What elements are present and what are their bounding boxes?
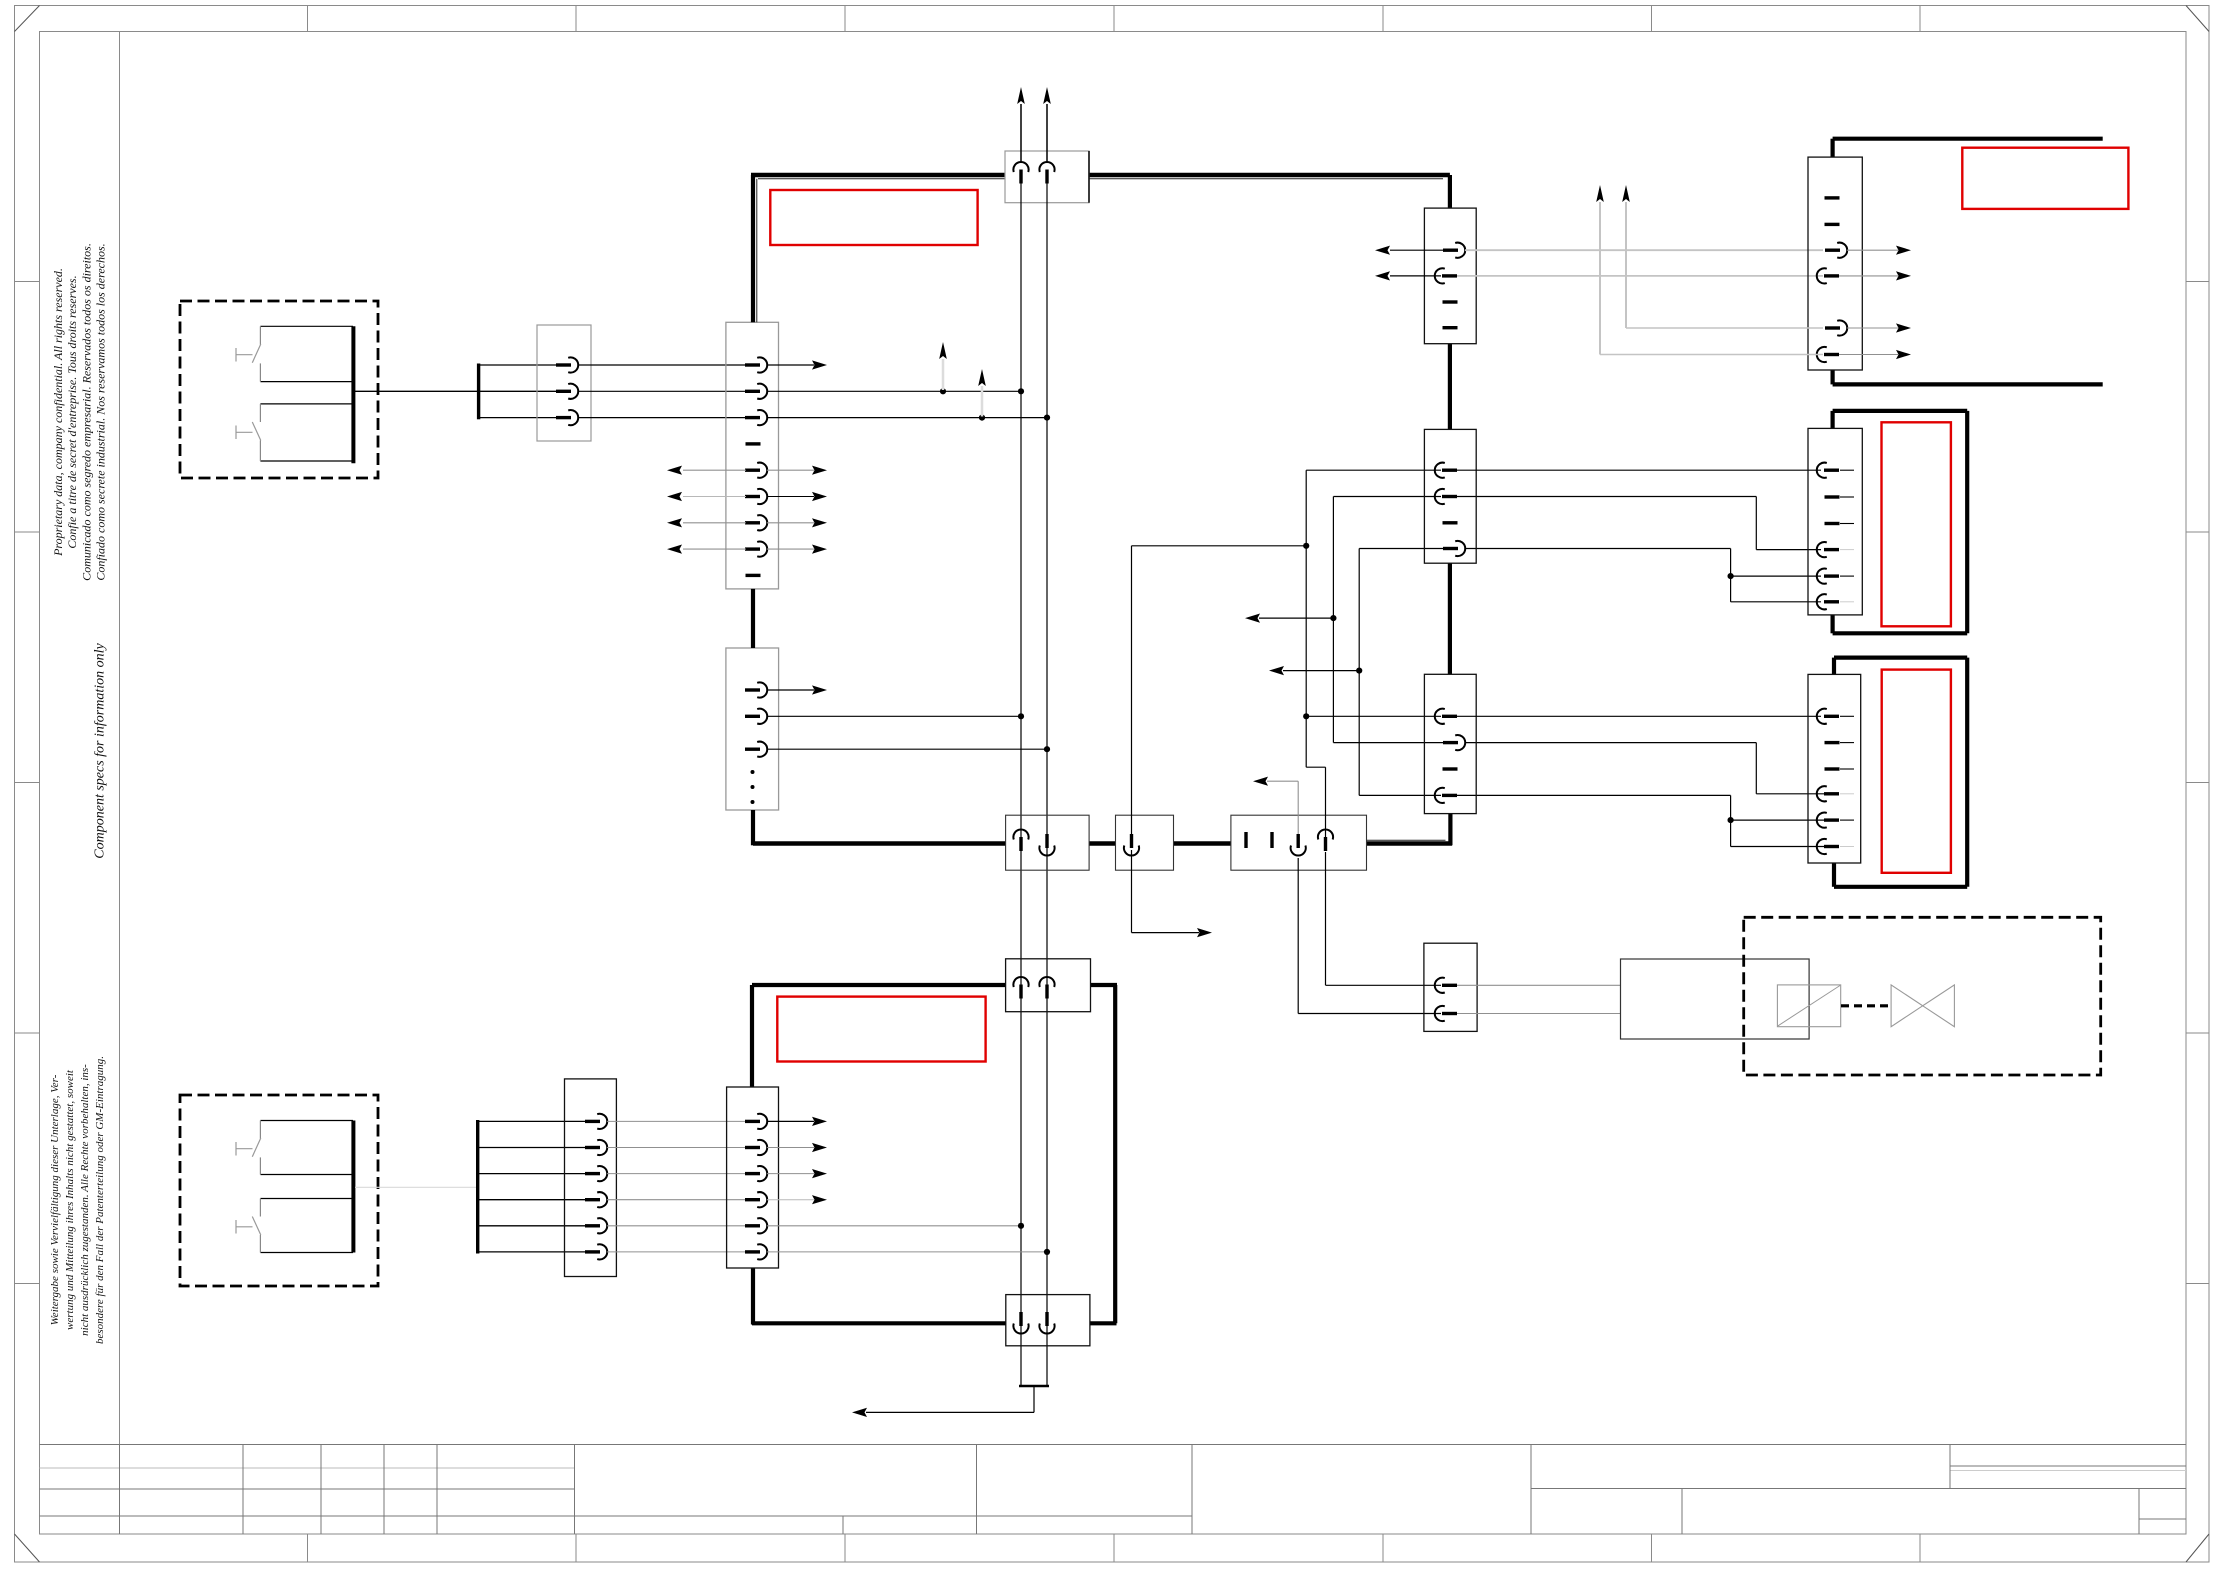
wire X18 pin 4 arrow right — [767, 1195, 827, 1204]
connector X18 pin 1 — [745, 1114, 767, 1129]
module U1 left edge middle — [751, 589, 755, 648]
connector X12 pin 5 — [1825, 320, 1847, 335]
junction dot V1a — [940, 388, 946, 394]
wire SP2 to X17 pin 5 — [479, 1225, 585, 1227]
connector X12 body — [1808, 157, 1862, 370]
wire net E4 to X10 pin 4 — [1359, 794, 1441, 796]
module U4 left edge lower — [751, 1268, 755, 1325]
connector X8 pin 2 — [1435, 268, 1457, 283]
wire X7 pin 3 arrow left — [1253, 777, 1298, 834]
wire net E2 left drop — [1333, 497, 1441, 743]
battery G1 terminal bar — [351, 326, 355, 463]
wire X6 feed vertical — [1131, 546, 1133, 834]
label frame U2 (red) — [1882, 422, 1951, 626]
connector X8 pin 3 — [1443, 300, 1458, 303]
connector X7 spare pin 2 — [1270, 832, 1273, 848]
junction dot V2a — [979, 415, 985, 421]
wire X11 pin 1 to pump M1 — [1457, 984, 1621, 986]
connector X12 pin 3 — [1825, 243, 1847, 258]
wire riser R1 to X12 pin 5 — [1622, 185, 1823, 328]
connector X17 pin 3 — [585, 1166, 607, 1181]
module U2 outline — [1833, 411, 1968, 633]
connector X4 body — [1005, 151, 1089, 203]
battery box G2 dashed enclosure — [180, 1095, 378, 1286]
connector X2 pin 5 — [745, 463, 767, 478]
wire X10 pin 4 to U3 pins 5 and 6 — [1456, 795, 1825, 846]
wire X2 pin 6 left arrow — [667, 492, 746, 501]
connector X5 pin 1 — [1013, 829, 1028, 851]
connector X13 pin 6 — [1817, 594, 1839, 609]
label frame U5 (red) — [1962, 148, 2128, 209]
wire X2 pin 1 output arrow — [767, 360, 827, 369]
connector X12 pin 6 — [1817, 347, 1839, 362]
module U1 bottom bus segment 4 — [1367, 840, 1453, 843]
wire X17 pin 4 to X18 pin 4 — [607, 1199, 746, 1201]
legal text block german — [49, 1056, 106, 1344]
wire X10 pin 1 to U3 pin 1 — [1457, 715, 1821, 717]
wire X8 pin 1 arrow left — [1375, 246, 1443, 255]
junction dot U3 feed — [1728, 817, 1734, 823]
wire X2 pin 8 left arrow — [667, 545, 746, 554]
connector X6 pin 1 — [1124, 834, 1139, 856]
wire net E1 to X10 pin 1 — [1306, 715, 1441, 717]
svg-text:Weitergabe sowie Vervielfält: Weitergabe sowie Vervielfältigung dieser… — [49, 1074, 61, 1325]
connector X10 body — [1424, 674, 1476, 813]
junction dot E4 — [1356, 668, 1362, 674]
wire SP1 to X1 pin 1 — [480, 364, 556, 366]
wire X3 pin 3 to node V2c — [767, 748, 1047, 750]
wire net N2 vertical — [1046, 184, 1048, 1387]
svg-text:Proprietary data, company con: Proprietary data, company confidential. … — [51, 268, 65, 557]
connector X2 pin 2 — [745, 384, 767, 399]
wire X2 pin 5 left arrow — [667, 466, 746, 475]
connector X1 pin 1 — [556, 357, 578, 372]
connector X11 pin 2 — [1435, 1006, 1457, 1021]
connector X12 pin 4 — [1817, 268, 1839, 283]
wire battery G1 output — [355, 390, 478, 392]
wire X18 pin 3 arrow right — [767, 1169, 827, 1178]
connector X17 pin 5 — [585, 1218, 607, 1233]
connector X14 pin 4 — [1817, 786, 1839, 801]
module U4 right edge — [1113, 985, 1117, 1323]
wire SP2 to X17 pin 3 — [479, 1173, 585, 1175]
wire X9 pin 1 to U2 pin 1 — [1457, 469, 1821, 471]
wire X18 pin 2 arrow right — [767, 1143, 827, 1152]
corner diagonal bottom-left — [15, 1534, 40, 1562]
wire X11 pin 2 to pump M1 — [1457, 1013, 1621, 1015]
connector X14 pin 1 — [1817, 709, 1839, 724]
switch S4 of battery G2 — [236, 1217, 261, 1236]
mechanical link L1 to valve — [1841, 1004, 1891, 1007]
wire X17 pin 3 to X18 pin 3 — [607, 1173, 746, 1175]
wire X1 pin 3 to X2 pin 3 — [578, 417, 746, 419]
wire X2 pin 6 right arrow — [767, 492, 827, 501]
wire X8 pin 2 arrow left — [1375, 271, 1441, 280]
connector X13 pin 2 — [1825, 495, 1840, 498]
connector X15 pin 1 — [1013, 977, 1028, 999]
connector X2 pin 8 — [745, 542, 767, 557]
battery box G1 dashed enclosure — [180, 301, 378, 478]
module U4 left edge upper — [750, 985, 754, 1087]
wire X12 pin 5 arrow right — [1847, 323, 1911, 332]
module U1 right edge segment 2 — [1448, 344, 1452, 430]
connector X13 pin 4 — [1817, 542, 1839, 557]
wire net E2 branch arrow left — [1245, 614, 1333, 623]
battery G1 cell 2 — [260, 404, 353, 461]
connector X13 pin 1 — [1817, 463, 1839, 478]
module U3 outline — [1834, 658, 1967, 887]
switch S2 of battery G1 — [236, 422, 261, 441]
junction dot E1 — [1303, 713, 1309, 719]
connector X1 body — [537, 325, 591, 441]
connector X1 pin 2 — [556, 384, 578, 399]
wire X2 pin 8 right arrow — [767, 545, 827, 554]
module U1 right edge segment 4 — [1448, 814, 1452, 846]
title block grid — [40, 1445, 2187, 1535]
wire X18 pin 6 to node N2 — [767, 1251, 1047, 1253]
connector X16 pin 1 — [1013, 1312, 1028, 1334]
module U4 bottom edge — [752, 1321, 1117, 1325]
wire X12 pin 6 arrow right — [1839, 350, 1911, 359]
legal text block english — [51, 243, 108, 581]
connector X14 pin 5 — [1817, 812, 1839, 827]
wire SP1 to X1 pin 3 — [480, 417, 556, 419]
svg-text:Confie a titre de secret d'e: Confie a titre de secret d'entreprise. T… — [65, 275, 79, 548]
connector X8 pin 1 — [1443, 243, 1465, 258]
left margin text column divider — [119, 32, 121, 1445]
junction dot N1d — [1018, 1223, 1024, 1229]
connector X3 pin 2 — [745, 709, 767, 724]
connector X10 pin 2 — [1443, 735, 1465, 750]
wire X1 pin 1 to X2 pin 1 — [578, 364, 746, 366]
connector X9 pin 4 — [1443, 541, 1465, 556]
wire terminator to arrow left — [852, 1386, 1034, 1417]
connector X16 pin 2 — [1039, 1312, 1054, 1334]
connector X14 pin 2 — [1825, 741, 1840, 744]
connector X13 body — [1808, 428, 1862, 615]
zone tick marks bottom edge — [308, 1534, 1921, 1562]
module U4 top edge — [752, 983, 1117, 987]
wire SP2 to X17 pin 6 — [479, 1251, 585, 1253]
wire SP2 to X17 pin 1 — [479, 1120, 585, 1122]
zone tick marks top edge — [308, 6, 1921, 32]
module U1 right edge segment 1 — [1448, 175, 1452, 208]
zone tick marks right edge — [2186, 282, 2209, 1284]
module U5 bottom edge — [1833, 370, 2103, 384]
module U1 top bus — [751, 175, 1450, 179]
connector X18 pin 2 — [745, 1140, 767, 1155]
junction dot V2b — [1044, 415, 1050, 421]
connector X9 pin 2 — [1435, 489, 1457, 504]
connector X12 pin 1 — [1825, 196, 1840, 199]
wire net E4 left drop — [1359, 549, 1443, 796]
wire X6 to arrow right — [1132, 850, 1213, 937]
connector X16 body — [1006, 1295, 1090, 1346]
connector X10 pin 4 — [1435, 788, 1457, 803]
connector X3 pin 1 — [745, 682, 767, 697]
pump box M1 — [1621, 959, 1810, 1039]
connector X5 body — [1006, 815, 1090, 870]
wire net E4 right to U2 pins 5 and 6 — [1465, 549, 1821, 602]
connector X4 pin 2 — [1039, 162, 1054, 184]
label frame U4 (red) — [777, 997, 985, 1062]
battery G2 cell 2 — [260, 1199, 353, 1253]
wire X4 pin 2 arrow up — [1043, 87, 1051, 163]
junction dot U2 feed — [1728, 573, 1734, 579]
label frame U1 (red) — [770, 190, 977, 245]
connector X3 ellipsis dots — [751, 770, 755, 804]
connector X7 body — [1231, 815, 1367, 870]
wire X4 pin 1 arrow up — [1017, 87, 1025, 163]
module U1 bottom bus segment 2 — [1089, 841, 1115, 846]
valve V1 — [1891, 985, 1954, 1027]
module U1 bottom bus segment 3 — [1174, 841, 1231, 846]
junction dot W1 — [1303, 543, 1309, 549]
svg-text:Component specs for informatio: Component specs for information only — [93, 642, 108, 858]
connector X14 pin 6 — [1817, 839, 1839, 854]
wire X3 pin 1 output arrow — [767, 685, 827, 694]
battery G2 cell 1 — [260, 1121, 353, 1175]
module U1 bottom bus segment 1 — [753, 841, 1006, 846]
corner diagonal top-left — [15, 6, 40, 32]
connector X15 body — [1006, 959, 1091, 1012]
connector X7 spare pin 1 — [1244, 832, 1247, 848]
svg-text:Comunicado como segredo empres: Comunicado como segredo empresarial. Res… — [79, 243, 93, 581]
corner diagonal bottom-right — [2186, 1534, 2209, 1562]
connector X17 pin 2 — [585, 1140, 607, 1155]
connector X18 body — [727, 1087, 779, 1268]
connector X17 body — [565, 1079, 617, 1277]
splice bracket SP1 — [477, 364, 480, 420]
wire net E2 to X10 pin 2 — [1333, 742, 1443, 744]
connector X12 pin 2 — [1825, 223, 1840, 226]
wire net E1 upper — [1306, 470, 1441, 767]
wire SP2 to X17 pin 4 — [479, 1199, 585, 1201]
connector X6 body — [1116, 815, 1174, 870]
wire riser R2 to X12 pin 6 — [1596, 185, 1823, 355]
wire X18 pin 1 arrow right — [767, 1117, 827, 1126]
module U5 top edge — [1833, 139, 2103, 157]
battery G2 terminal bar — [351, 1121, 355, 1253]
connector X13 pin 3 — [1825, 522, 1840, 525]
connector X8 pin 4 — [1443, 326, 1458, 329]
splice bracket SP2 — [476, 1120, 479, 1254]
connector X15 pin 2 — [1039, 977, 1054, 999]
connector X2 body — [726, 322, 779, 589]
connector X4 pin 1 — [1013, 162, 1028, 184]
wire net E2 right to U2 pin 4 — [1457, 497, 1821, 550]
wire X12 pin 3 arrow right — [1847, 246, 1911, 255]
connector X14 pin stubs — [1840, 716, 1854, 846]
connector X17 pin 4 — [585, 1192, 607, 1207]
connector X10 pin 1 — [1435, 709, 1457, 724]
connector X9 pin 1 — [1435, 463, 1457, 478]
connector X3 body — [726, 648, 779, 810]
wire X10 pin 2 to U3 pin 4 — [1465, 743, 1825, 794]
wire X2 pin 5 right arrow — [767, 466, 827, 475]
connector X11 body — [1424, 943, 1477, 1031]
switch S3 of battery G2 — [236, 1138, 261, 1157]
wire X1 pin 2 to X2 pin 2 — [578, 390, 746, 392]
signal arrow up at node V2a — [978, 369, 986, 417]
wire X18 pin 5 to node N1 — [767, 1225, 1021, 1227]
wire X17 pin 1 to X18 pin 1 — [607, 1120, 746, 1122]
connector X5 pin 2 — [1039, 834, 1054, 856]
wire X8 pin 1 to U5 pin 3 — [1465, 249, 1823, 251]
junction dot N2d — [1044, 1249, 1050, 1255]
wire X8 pin 2 to U5 pin 4 — [1457, 275, 1823, 277]
connector X2 pin 7 — [745, 515, 767, 530]
wire X17 pin 5 to X18 pin 5 — [607, 1225, 746, 1227]
wire X7 pin 4 to X11 pin 1 — [1326, 852, 1442, 985]
connector X7 pin 3 — [1291, 834, 1306, 856]
wire net N1 vertical — [1020, 184, 1022, 1387]
junction dot V1b — [1018, 388, 1024, 394]
wire net E4 branch arrow left — [1269, 666, 1359, 675]
wire X2 pin 7 left arrow — [667, 518, 746, 527]
wire X12 pin 4 arrow right — [1839, 271, 1911, 280]
svg-text:besondere für den Fall der Pat: besondere für den Fall der Patenterteilu… — [94, 1056, 106, 1344]
wire net E1 jog to X7 pin 4 — [1306, 767, 1325, 838]
connector X2 pin 4 — [746, 442, 761, 445]
connector X11 pin 1 — [1435, 978, 1457, 993]
connector X17 pin 6 — [585, 1244, 607, 1259]
connector X18 pin 4 — [745, 1192, 767, 1207]
connector X8 body — [1424, 208, 1476, 344]
junction dot V2c — [1044, 746, 1050, 752]
wire X7 pin 3 to X11 pin 2 — [1298, 858, 1441, 1014]
connector X14 pin 3 — [1825, 767, 1840, 770]
signal arrow up at node V1a — [939, 342, 947, 390]
component specs note text — [93, 642, 108, 858]
connector X18 pin 3 — [745, 1166, 767, 1181]
wire battery G2 output — [355, 1186, 477, 1188]
wire X2 pin 3 to node V2 — [767, 417, 1047, 419]
junction dot E2 — [1330, 615, 1336, 621]
module U1 right edge segment 3 — [1448, 563, 1452, 674]
connector X1 pin 3 — [556, 410, 578, 425]
switch S1 of battery G1 — [236, 344, 261, 363]
corner diagonal top-right — [2186, 6, 2209, 32]
wire X2 pin 7 right arrow — [767, 518, 827, 527]
svg-text:wertung und Mitteilung ihres I: wertung und Mitteilung ihres Inhalts nic… — [64, 1069, 76, 1330]
module U1 left edge lower — [751, 810, 755, 845]
net terminator bar — [1019, 1385, 1049, 1388]
connector X18 pin 5 — [745, 1218, 767, 1233]
connector X7 pin 4 — [1318, 829, 1333, 851]
connector X2 pin 3 — [745, 410, 767, 425]
wire X2 pin 2 to node V1 — [767, 390, 1021, 392]
battery G1 cell 1 — [260, 326, 353, 381]
module U1 left edge upper — [753, 175, 757, 322]
connector X17 pin 1 — [585, 1114, 607, 1129]
connector X2 pin 6 — [745, 489, 767, 504]
wire SP2 to X17 pin 2 — [479, 1147, 585, 1149]
zone tick marks left edge — [15, 282, 40, 1284]
junction dot V1c — [1018, 713, 1024, 719]
connector X9 pin 3 — [1443, 521, 1458, 524]
wire node W1 horizontal — [1132, 545, 1307, 547]
dashed enclosure valve assembly — [1744, 917, 2101, 1075]
solenoid L1 — [1777, 985, 1840, 1027]
connector X2 pin 1 — [745, 357, 767, 372]
wire X3 pin 2 to node V1c — [767, 715, 1021, 717]
connector X14 body — [1808, 674, 1861, 863]
wire X17 pin 6 to X18 pin 6 — [607, 1251, 746, 1253]
label frame U3 (red) — [1882, 670, 1951, 873]
connector X13 pin stubs — [1840, 470, 1854, 602]
connector X10 pin 3 — [1443, 767, 1458, 770]
wire X17 pin 2 to X18 pin 2 — [607, 1147, 746, 1149]
connector X13 pin 5 — [1817, 569, 1839, 584]
connector X18 pin 6 — [745, 1244, 767, 1259]
svg-text:Confiado como secrete industri: Confiado como secrete industrial. Nos re… — [94, 243, 108, 580]
svg-text:nicht ausdrücklich zugestanden: nicht ausdrücklich zugestanden. Alle Rec… — [79, 1064, 91, 1336]
connector X9 body — [1424, 429, 1476, 563]
connector X3 pin 3 — [745, 742, 767, 757]
wire SP1 to X1 pin 2 — [480, 390, 556, 392]
connector X2 pin 9 — [746, 574, 761, 577]
